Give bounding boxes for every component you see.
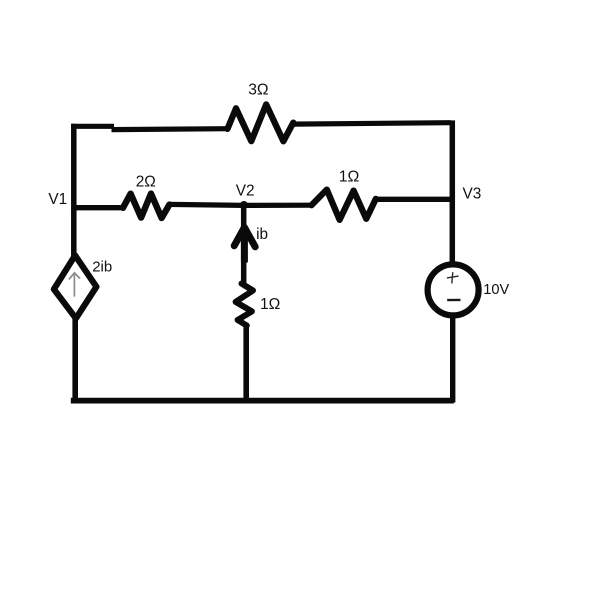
current arrow ib head bbox=[234, 227, 255, 247]
node V2 junction dot bbox=[240, 201, 248, 209]
svg-text:2Ω: 2Ω bbox=[136, 174, 156, 191]
wire middle vertical lower bbox=[243, 325, 249, 404]
wire middle vertical upper (V2 down to resistor) bbox=[241, 206, 247, 285]
resistor 1ohm horizontal zigzag bbox=[312, 190, 376, 220]
svg-text:10V: 10V bbox=[483, 282, 509, 298]
resistor 3ohm zigzag bbox=[228, 104, 294, 141]
resistor 2ohm zigzag bbox=[123, 194, 169, 218]
wire V1 row left bbox=[71, 205, 124, 210]
current arrow ib shaft bbox=[241, 229, 248, 263]
wire top horizontal segment 2 bbox=[112, 126, 229, 132]
current source inner arrow bbox=[69, 273, 80, 297]
resistor 1ohm vertical zigzag bbox=[236, 284, 253, 326]
wire row right to V3 bbox=[376, 197, 453, 202]
wire middle row (2ohm to 1ohm through V2) bbox=[169, 204, 312, 205]
svg-text:2ib: 2ib bbox=[92, 258, 112, 275]
svg-text:V1: V1 bbox=[48, 191, 67, 208]
svg-text:V2: V2 bbox=[236, 182, 255, 199]
voltage source circle bbox=[428, 264, 479, 315]
svg-text:V3: V3 bbox=[463, 186, 482, 203]
voltage source plus sign bbox=[447, 272, 459, 283]
current source diamond 2ib bbox=[54, 255, 97, 318]
wire right vertical (top corner to source) bbox=[450, 120, 456, 265]
svg-text:1Ω: 1Ω bbox=[339, 169, 360, 186]
svg-text:1Ω: 1Ω bbox=[260, 296, 280, 313]
svg-text:3Ω: 3Ω bbox=[248, 81, 268, 98]
svg-text:ib: ib bbox=[256, 226, 268, 243]
wire bottom horizontal bbox=[71, 398, 454, 404]
wire top horizontal segment 3 bbox=[293, 123, 451, 124]
wire below voltage source bbox=[450, 315, 455, 402]
voltage source minus sign bbox=[447, 299, 460, 302]
wire left vertical (top corner down through V1 to source top) bbox=[71, 124, 77, 257]
wire top horizontal segment 1 bbox=[71, 124, 114, 129]
wire below diamond bbox=[72, 317, 78, 403]
